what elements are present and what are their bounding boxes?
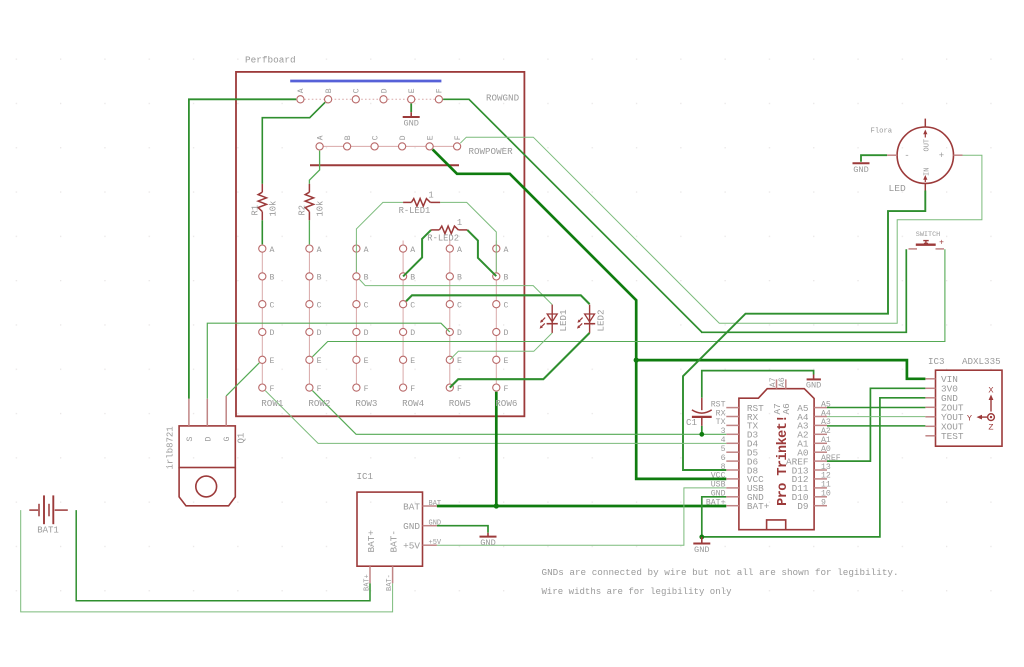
perfboard pads ROWGND A-F bbox=[297, 96, 304, 103]
IC IC3 ADXL335 outline bbox=[936, 370, 1003, 446]
capacitor C1 bbox=[701, 398, 703, 410]
svg-text:BAT+: BAT+ bbox=[363, 574, 371, 591]
wire Q1 drain to ROW5 pad D (w1) bbox=[207, 323, 449, 399]
wire Pro Trinket AREF to ADXL 3V0 bbox=[827, 388, 925, 461]
svg-text:BAT: BAT bbox=[429, 500, 442, 508]
wire R2 to ROW2 pad A bbox=[308, 220, 310, 244]
svg-text:LED2: LED2 bbox=[596, 309, 607, 331]
svg-text:A: A bbox=[410, 246, 415, 255]
svg-text:B: B bbox=[325, 88, 334, 93]
svg-text:B: B bbox=[457, 274, 462, 283]
svg-text:R-LED1: R-LED1 bbox=[399, 206, 431, 216]
svg-text:BAT-: BAT- bbox=[389, 530, 400, 553]
svg-text:10k: 10k bbox=[316, 201, 326, 217]
svg-text:GND: GND bbox=[403, 521, 420, 532]
Flora OUT arrow bbox=[924, 132, 926, 138]
Q1 pin D bbox=[206, 399, 208, 426]
svg-text:C: C bbox=[504, 301, 509, 310]
svg-text:ROW5: ROW5 bbox=[449, 398, 471, 409]
svg-text:D9: D9 bbox=[797, 501, 808, 512]
svg-text:SWITCH: SWITCH bbox=[916, 231, 940, 239]
svg-text:6: 6 bbox=[721, 454, 726, 463]
svg-text:C: C bbox=[364, 301, 369, 310]
wire R1 to ROW1 pad A bbox=[261, 220, 263, 244]
IC Pro Trinket outline bbox=[739, 389, 814, 530]
perfboard pad grid ROW1-ROW6 x A-F bbox=[259, 245, 266, 252]
svg-text:RST: RST bbox=[711, 400, 726, 409]
svg-text:13: 13 bbox=[821, 463, 831, 472]
Q1 pin G bbox=[225, 396, 227, 426]
Pro Trinket left pins RST RX TX 3 4 5 6 8 VCC USB GND BAT+ bbox=[726, 407, 739, 409]
Flora top pin bbox=[924, 119, 926, 127]
wire ROWGND A to Q1 source bbox=[189, 99, 296, 399]
svg-text:A: A bbox=[270, 246, 275, 255]
svg-text:Y: Y bbox=[967, 413, 972, 423]
wire IC1 BAT to Pro Trinket BAT+ (thick) bbox=[437, 505, 726, 508]
svg-text:BAT-: BAT- bbox=[386, 574, 394, 591]
resistor R2 bbox=[308, 184, 310, 192]
resistor R-LED1 bbox=[403, 201, 411, 203]
wire C1 bottom to D3 net bbox=[701, 426, 703, 435]
svg-text:R-LED2: R-LED2 bbox=[427, 233, 459, 243]
wire ROWPOWER F to Flora + pin bbox=[460, 137, 982, 323]
Flora + pin bbox=[954, 154, 963, 156]
svg-text:ROW3: ROW3 bbox=[355, 398, 377, 409]
svg-text:A7: A7 bbox=[769, 377, 778, 387]
svg-text:Flora: Flora bbox=[871, 128, 893, 136]
svg-text:-: - bbox=[904, 151, 909, 161]
wire R-LED2 left to ROW4 pad B (dark) bbox=[403, 230, 431, 277]
svg-text:GND: GND bbox=[429, 520, 442, 528]
svg-text:E: E bbox=[317, 357, 322, 366]
svg-text:Perfboard: Perfboard bbox=[245, 55, 296, 66]
svg-text:S: S bbox=[186, 437, 195, 442]
switch left pin bbox=[909, 248, 918, 250]
svg-text:F: F bbox=[454, 135, 463, 140]
svg-text:GND: GND bbox=[480, 538, 495, 548]
wire ROW1 F to Pro Trinket D4 bbox=[265, 391, 726, 444]
svg-text:A5: A5 bbox=[821, 400, 831, 409]
svg-text:OUT: OUT bbox=[924, 139, 932, 152]
svg-text:G: G bbox=[223, 437, 232, 442]
ground GND (Pro Trinket bottom) bbox=[701, 537, 703, 543]
resistor R-LED2 bbox=[431, 229, 439, 231]
svg-text:F: F bbox=[317, 385, 322, 394]
svg-text:E: E bbox=[408, 88, 417, 93]
svg-text:+: + bbox=[939, 239, 944, 248]
svg-text:4: 4 bbox=[721, 436, 726, 445]
svg-text:ROWGND: ROWGND bbox=[486, 93, 520, 104]
wire R-LED1 right to ROW6 pads A/B bbox=[440, 202, 496, 272]
svg-text:12: 12 bbox=[821, 472, 831, 481]
svg-text:R2: R2 bbox=[298, 205, 308, 216]
wire ROW6 F to BAT+ net (thick) bbox=[495, 392, 498, 506]
svg-text:Q1: Q1 bbox=[236, 433, 246, 444]
svg-text:A4: A4 bbox=[821, 409, 831, 418]
svg-text:F: F bbox=[410, 385, 415, 394]
junction BAT+ net bbox=[494, 503, 499, 508]
perfboard outline bbox=[236, 72, 524, 416]
junction C1 on D3 net bbox=[699, 432, 704, 437]
svg-text:A: A bbox=[297, 88, 306, 93]
svg-text:D: D bbox=[364, 329, 369, 338]
wire ROWPOWER A to R2 bbox=[309, 151, 319, 184]
perfboard pads ROWPOWER A-F bbox=[316, 143, 323, 150]
ground GND (Flora) bbox=[853, 162, 870, 164]
blue jumper wire bbox=[290, 80, 441, 83]
Pro Trinket top pins A7 A6 bbox=[776, 379, 778, 388]
wire IC1 +5V to Pro Trinket USB bbox=[437, 488, 726, 545]
resistor R1 bbox=[261, 184, 263, 192]
svg-text:B: B bbox=[504, 274, 509, 283]
wire ROWGND F to SWITCH left (via long diagonal) bbox=[443, 99, 906, 332]
red bus line under ROWPOWER bbox=[310, 164, 459, 166]
svg-text:A0: A0 bbox=[821, 445, 831, 454]
svg-text:ADXL335: ADXL335 bbox=[962, 356, 1001, 367]
svg-text:+5V: +5V bbox=[403, 541, 420, 552]
wire ROWGND B to R1 bbox=[262, 102, 325, 184]
ADXL335 pins VIN 3V0 GND ZOUT YOUT XOUT TEST bbox=[925, 378, 935, 380]
svg-text:10: 10 bbox=[821, 490, 831, 499]
svg-text:B: B bbox=[364, 274, 369, 283]
node ROWPOWER bus bbox=[320, 145, 458, 147]
svg-text:A6: A6 bbox=[778, 377, 787, 387]
svg-text:F: F bbox=[457, 385, 462, 394]
svg-text:C1: C1 bbox=[686, 417, 698, 428]
svg-text:LED: LED bbox=[889, 183, 907, 194]
svg-text:GND: GND bbox=[806, 380, 821, 390]
svg-text:D: D bbox=[504, 329, 509, 338]
svg-text:C: C bbox=[410, 301, 415, 310]
svg-text:+5V: +5V bbox=[429, 539, 442, 547]
IC IC1 (power boost) bbox=[357, 492, 423, 566]
wire Pro Trinket top GND net through C1 bbox=[702, 371, 814, 398]
wire BAT1 - to IC1 BAT- bbox=[21, 510, 393, 612]
svg-text:11: 11 bbox=[821, 481, 831, 490]
svg-text:3: 3 bbox=[721, 427, 726, 436]
svg-text:B: B bbox=[410, 274, 415, 283]
junction GND net at GND symbol bbox=[699, 535, 704, 540]
wire Flora - pin to GND bbox=[861, 155, 887, 162]
svg-text:BAT+: BAT+ bbox=[747, 501, 770, 512]
IC1 pin BAT+ (bottom) bbox=[369, 566, 371, 583]
svg-text:TEST: TEST bbox=[941, 431, 964, 442]
wire BAT1 + to IC1 BAT+ bbox=[76, 510, 370, 601]
svg-text:D: D bbox=[204, 437, 213, 442]
svg-text:IC1: IC1 bbox=[357, 471, 374, 482]
svg-text:C: C bbox=[317, 301, 322, 310]
svg-text:E: E bbox=[426, 135, 435, 140]
svg-text:GNDs are connected by wire but: GNDs are connected by wire but not all a… bbox=[542, 567, 899, 578]
svg-text:C: C bbox=[457, 301, 462, 310]
LED LED2 bbox=[589, 305, 591, 324]
switch right pin bbox=[936, 248, 945, 250]
Pro Trinket right pins A5 A4 A3 A2 A1 A0 AREF 13 12 11 10 9 bbox=[814, 407, 827, 409]
svg-text:R1: R1 bbox=[251, 205, 261, 216]
svg-text:ROW2: ROW2 bbox=[308, 398, 330, 409]
svg-text:A: A bbox=[364, 246, 369, 255]
svg-text:BAT+: BAT+ bbox=[706, 499, 726, 508]
svg-text:B: B bbox=[270, 274, 275, 283]
svg-text:BAT+: BAT+ bbox=[366, 530, 377, 553]
wire ROW4 C to LED2 anode (dark) bbox=[406, 295, 589, 304]
svg-text:A6: A6 bbox=[781, 403, 792, 415]
wire ROW3 B to LED1 anode bbox=[359, 279, 552, 304]
wire IC1 GND to GND symbol bbox=[437, 526, 488, 533]
LED LED1 bbox=[551, 305, 553, 324]
svg-text:9: 9 bbox=[821, 499, 826, 508]
svg-text:D: D bbox=[270, 329, 275, 338]
svg-text:A1: A1 bbox=[821, 436, 831, 445]
svg-text:+: + bbox=[939, 151, 944, 161]
svg-text:8: 8 bbox=[721, 463, 726, 472]
svg-text:TX: TX bbox=[716, 418, 726, 427]
wire ROWGND E to GND bbox=[410, 104, 412, 113]
svg-text:D: D bbox=[317, 329, 322, 338]
svg-text:IN: IN bbox=[924, 168, 932, 176]
svg-text:B: B bbox=[317, 274, 322, 283]
svg-text:GND: GND bbox=[403, 119, 418, 129]
svg-text:D: D bbox=[410, 329, 415, 338]
IC1 pin GND bbox=[423, 525, 437, 527]
svg-text:ROW1: ROW1 bbox=[261, 398, 284, 409]
svg-text:F: F bbox=[504, 385, 509, 394]
svg-text:C: C bbox=[353, 88, 362, 93]
svg-text:F: F bbox=[436, 88, 445, 93]
svg-text:D: D bbox=[399, 135, 408, 140]
Pro Trinket bottom notch bbox=[767, 520, 786, 530]
svg-text:E: E bbox=[270, 357, 275, 366]
svg-text:B: B bbox=[344, 135, 353, 140]
Flora - pin bbox=[887, 154, 897, 156]
svg-text:E: E bbox=[410, 357, 415, 366]
wire Pro Trinket GND pin to ADXL GND bbox=[702, 398, 926, 537]
IC1 pin +5V bbox=[423, 544, 437, 546]
svg-text:A3: A3 bbox=[821, 418, 831, 427]
svg-text:USB: USB bbox=[711, 481, 726, 490]
svg-text:1: 1 bbox=[428, 190, 433, 200]
pad column lines ROW1-ROW6 bbox=[261, 249, 263, 388]
transistor Q1 irlb8721 bbox=[179, 426, 235, 468]
svg-text:A: A bbox=[504, 246, 509, 255]
svg-text:RX: RX bbox=[716, 409, 726, 418]
svg-text:ROW4: ROW4 bbox=[402, 398, 425, 409]
switch SWITCH bbox=[916, 243, 936, 245]
svg-text:irlb8721: irlb8721 bbox=[165, 426, 175, 469]
svg-text:GND: GND bbox=[711, 490, 726, 499]
svg-text:5: 5 bbox=[721, 445, 726, 454]
IC1 pin BAT- (bottom) bbox=[392, 566, 394, 583]
svg-text:A: A bbox=[457, 246, 462, 255]
ground GND (Pro Trinket top) bbox=[813, 375, 815, 380]
node ROWGND bus (dotted) bbox=[300, 98, 439, 100]
svg-text:BAT: BAT bbox=[403, 501, 420, 512]
IC1 pin BAT bbox=[423, 505, 437, 507]
svg-text:F: F bbox=[364, 385, 369, 394]
wire LED1 cathode to ROW5 pad E bbox=[450, 333, 552, 360]
svg-text:AREF: AREF bbox=[821, 454, 841, 463]
wire Flora IN to Pro Trinket D8 bbox=[683, 191, 925, 471]
svg-text:ROWPOWER: ROWPOWER bbox=[469, 146, 514, 157]
svg-text:A: A bbox=[316, 135, 325, 140]
svg-text:C: C bbox=[371, 135, 380, 140]
svg-text:D: D bbox=[457, 329, 462, 338]
Flora LED pixel bbox=[897, 127, 953, 183]
wire ROW1 E to Q1 gate bbox=[226, 363, 259, 396]
svg-text:A2: A2 bbox=[821, 427, 831, 436]
Flora IN pin bbox=[924, 183, 926, 190]
svg-text:VCC: VCC bbox=[711, 472, 726, 481]
wire LED2 cathode to ROW5 pad F (dark) bbox=[450, 333, 590, 388]
wire ROW2 F to Pro Trinket D3 bbox=[312, 391, 726, 435]
Q1 pin S bbox=[188, 399, 190, 426]
svg-text:ROW6: ROW6 bbox=[495, 398, 517, 409]
ground GND (ROWGND E) bbox=[410, 112, 412, 116]
wire Pro Trinket A3 to ADXL XOUT bbox=[827, 425, 925, 427]
wire Pro Trinket A4 to ADXL YOUT bbox=[827, 416, 925, 418]
svg-text:A: A bbox=[317, 246, 322, 255]
svg-text:C: C bbox=[270, 301, 275, 310]
svg-text:GND: GND bbox=[694, 545, 709, 555]
Flora IN arrow bbox=[924, 178, 926, 183]
svg-text:F: F bbox=[270, 385, 275, 394]
svg-text:BAT1: BAT1 bbox=[37, 526, 59, 536]
battery BAT1 bbox=[29, 509, 38, 511]
svg-text:LED1: LED1 bbox=[558, 309, 569, 332]
svg-text:E: E bbox=[364, 357, 369, 366]
svg-text:D: D bbox=[380, 88, 389, 93]
svg-text:IC3: IC3 bbox=[928, 356, 945, 367]
wire power net to ADXL VIN (thick) bbox=[636, 360, 925, 379]
svg-text:1: 1 bbox=[457, 218, 462, 228]
ADXL335 axis symbol bbox=[990, 398, 992, 412]
svg-text:GND: GND bbox=[853, 165, 868, 175]
wire ROWPOWER E to VIN/VCC power net (thick) bbox=[433, 149, 727, 479]
junction power net bbox=[634, 358, 639, 363]
svg-text:E: E bbox=[457, 357, 462, 366]
svg-text:E: E bbox=[504, 357, 509, 366]
wire R-LED2 right to ROW6 pad B (dark) bbox=[467, 230, 496, 276]
svg-text:10k: 10k bbox=[269, 201, 279, 217]
svg-text:Wire widths are for legibility: Wire widths are for legibility only bbox=[542, 586, 733, 597]
wire ROW2 E to SWITCH right bbox=[312, 249, 945, 357]
svg-text:X: X bbox=[988, 386, 993, 396]
ground GND (IC1) bbox=[487, 533, 489, 536]
svg-text:Z: Z bbox=[988, 422, 993, 432]
wire R-LED1 left to ROW3 pad B bbox=[356, 202, 403, 272]
wire Pro Trinket A5 to ADXL ZOUT bbox=[827, 406, 925, 408]
